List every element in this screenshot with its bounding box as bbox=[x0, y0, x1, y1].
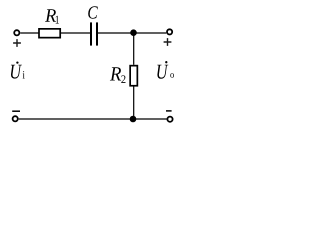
label C bbox=[88, 6, 98, 18]
terminal input plus bbox=[14, 30, 19, 35]
bottom wire right: node B to output minus bbox=[133, 118, 167, 120]
resistor R1 bbox=[39, 29, 60, 38]
label R2 bbox=[110, 67, 121, 80]
label U_i bbox=[11, 61, 25, 78]
terminal output minus bbox=[167, 117, 172, 122]
node A junction dot bbox=[130, 29, 137, 36]
wire C to node A bbox=[98, 32, 134, 34]
wire R1 to C bbox=[61, 32, 90, 34]
minus sign output bbox=[166, 110, 172, 112]
wire R2 down to node B bbox=[133, 87, 135, 120]
bottom wire left: input minus to node B bbox=[19, 118, 133, 120]
terminal output plus bbox=[167, 29, 172, 34]
node B junction dot bbox=[130, 116, 137, 123]
terminal input minus bbox=[13, 116, 18, 121]
plus sign output bbox=[164, 38, 172, 46]
wire input to R1 bbox=[20, 32, 38, 34]
wire node A to output plus terminal bbox=[134, 32, 167, 34]
resistor R2 bbox=[130, 66, 137, 86]
minus sign input bbox=[12, 110, 20, 112]
plus sign input bbox=[13, 39, 21, 47]
label U_o bbox=[157, 61, 174, 79]
capacitor C bbox=[91, 22, 97, 45]
wire node A down to R2 bbox=[133, 33, 135, 65]
label R1 bbox=[45, 9, 56, 22]
